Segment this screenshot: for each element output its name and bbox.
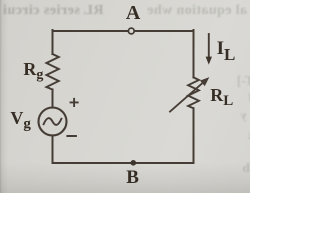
wire: right branch upper	[193, 30, 195, 77]
bleed-through mirrored caption text (show-through from page back)	[0, 3, 114, 19]
label RL	[210, 86, 233, 109]
label B	[126, 168, 139, 187]
label IL	[217, 39, 236, 63]
bleed-through right side fragment 4	[238, 128, 254, 143]
variable-resistor arrow through RL	[170, 82, 204, 112]
wire: bottom horizontal	[53, 162, 194, 164]
resistor Rg zigzag	[46, 54, 58, 90]
wire: left branch middle	[52, 90, 54, 108]
arrowhead of IL	[206, 57, 212, 65]
bleed-through right side fragment 3	[238, 108, 258, 123]
bleed-through right side fragment: bracket pair	[232, 74, 262, 90]
plus sign of Vg	[71, 99, 78, 106]
arrowhead of RL variable arrow	[201, 78, 209, 86]
minus sign of Vg	[67, 135, 76, 137]
node A (open terminal)	[128, 28, 134, 34]
resistor RL zigzag	[188, 77, 199, 108]
label Rg	[23, 60, 43, 83]
source Vg circle	[39, 108, 67, 136]
sine symbol inside Vg	[44, 118, 62, 125]
wire: left branch lower	[52, 135, 54, 163]
label A	[126, 3, 140, 23]
node B (solid junction dot)	[131, 160, 137, 166]
current IL arrow shaft	[208, 34, 210, 58]
bleed-through right side fragment 2	[236, 90, 262, 106]
wire: left branch upper	[52, 30, 54, 54]
wire: top horizontal, left of node A	[53, 30, 128, 32]
wire: top horizontal, right of node A	[135, 30, 194, 32]
label Vg	[10, 109, 31, 132]
wire: right branch lower	[193, 108, 195, 163]
bleed-through bottom right fragment	[236, 160, 258, 176]
